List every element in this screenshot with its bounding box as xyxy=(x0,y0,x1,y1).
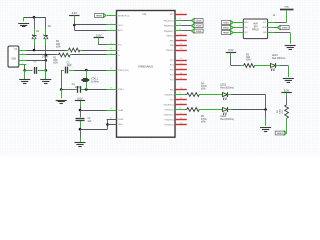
svg-text:23: 23 xyxy=(110,88,112,90)
svg-text:11: 11 xyxy=(110,43,112,45)
svg-text:8: 8 xyxy=(111,28,112,30)
svg-text:PD0: PD0 xyxy=(170,90,174,92)
svg-text:PB2(MOSI): PB2(MOSI) xyxy=(164,26,174,28)
svg-text:PD3(TXD1): PD3(TXD1) xyxy=(164,114,174,116)
svg-text:4: 4 xyxy=(181,103,182,105)
svg-text:PB0(SS): PB0(SS) xyxy=(166,50,174,52)
svg-text:±5%: ±5% xyxy=(56,46,61,48)
svg-text:26: 26 xyxy=(110,108,112,110)
svg-text:LED2: LED2 xyxy=(220,85,226,87)
svg-text:19: 19 xyxy=(180,43,182,45)
svg-text:2: 2 xyxy=(111,14,112,16)
svg-text:Red (633nm): Red (633nm) xyxy=(220,119,234,121)
svg-text:16 MHz: 16 MHz xyxy=(91,82,100,84)
svg-text:XTAL2(PC0): XTAL2(PC0) xyxy=(118,69,129,72)
svg-text:24: 24 xyxy=(180,88,182,90)
svg-text:VCC: VCC xyxy=(118,45,123,47)
svg-text:LED1: LED1 xyxy=(272,55,278,57)
svg-text:14: 14 xyxy=(110,48,112,50)
svg-text:12pF: 12pF xyxy=(75,87,81,89)
svg-text:24: 24 xyxy=(180,48,182,50)
svg-text:PB5: PB5 xyxy=(170,40,174,42)
svg-text:20: 20 xyxy=(110,68,112,70)
svg-text:Red (633nm): Red (633nm) xyxy=(272,58,286,60)
svg-text:9: 9 xyxy=(181,34,182,36)
svg-text:RST: RST xyxy=(244,32,247,34)
svg-text:mosi: mosi xyxy=(196,24,202,28)
svg-text:6: 6 xyxy=(271,31,272,33)
svg-text:PC2: PC2 xyxy=(170,60,174,62)
svg-text:PD7(INT7): PD7(INT7) xyxy=(164,124,173,126)
svg-text:2: 2 xyxy=(22,53,23,55)
svg-text:17: 17 xyxy=(110,53,112,55)
svg-text:19: 19 xyxy=(180,123,182,125)
svg-text:XTAL1: XTAL1 xyxy=(118,88,124,91)
svg-text:PB6: PB6 xyxy=(170,45,174,47)
svg-text:PB3(MISO): PB3(MISO) xyxy=(164,31,174,33)
svg-text:U1: U1 xyxy=(143,12,147,16)
svg-text:XTAL1: XTAL1 xyxy=(91,78,99,81)
svg-text:MOSI: MOSI xyxy=(262,27,267,29)
svg-text:4: 4 xyxy=(181,63,182,65)
svg-text:±5%: ±5% xyxy=(53,63,58,65)
svg-text:clock: clock xyxy=(196,19,203,23)
svg-text:PD1: PD1 xyxy=(170,99,174,101)
svg-text:GND: GND xyxy=(284,7,289,9)
svg-text:PD6(INT6): PD6(INT6) xyxy=(164,119,173,121)
svg-text:PC4: PC4 xyxy=(170,65,174,67)
svg-text:reset: reset xyxy=(277,131,283,135)
svg-text:9: 9 xyxy=(181,68,182,70)
svg-text:PB4(T1): PB4(T1) xyxy=(166,35,173,37)
svg-text:USB: USB xyxy=(11,58,16,60)
svg-text:PD4(INT5): PD4(INT5) xyxy=(164,94,173,96)
svg-text:1µF: 1µF xyxy=(88,121,93,123)
svg-text:3.3V: 3.3V xyxy=(72,12,77,15)
svg-text:5: 5 xyxy=(239,31,240,33)
svg-text:3: 3 xyxy=(239,26,240,28)
svg-text:PD2(RXD1): PD2(RXD1) xyxy=(164,104,174,106)
svg-text:PC5: PC5 xyxy=(170,70,174,72)
svg-text:4: 4 xyxy=(271,26,272,28)
svg-text:29: 29 xyxy=(180,98,182,100)
svg-text:19: 19 xyxy=(180,78,182,80)
svg-text:5.0V: 5.0V xyxy=(284,89,289,92)
svg-text:UGND: UGND xyxy=(118,119,124,121)
svg-text:29: 29 xyxy=(180,58,182,60)
svg-text:PC7: PC7 xyxy=(170,80,174,82)
svg-text:PB1(SCLK): PB1(SCLK) xyxy=(164,20,174,22)
svg-text:PROG: PROG xyxy=(252,29,259,32)
svg-text:miso: miso xyxy=(223,21,229,25)
svg-text:reset: reset xyxy=(223,31,229,35)
svg-text:3: 3 xyxy=(22,59,23,61)
svg-text:LED3: LED3 xyxy=(220,116,226,118)
svg-text:5.0V: 5.0V xyxy=(77,98,82,101)
svg-text:Red (633nm): Red (633nm) xyxy=(220,87,234,89)
svg-text:UCAP: UCAP xyxy=(118,109,124,112)
svg-text:4: 4 xyxy=(22,63,23,65)
svg-text:PC6: PC6 xyxy=(170,75,174,77)
svg-text:1: 1 xyxy=(239,21,240,23)
svg-text:RESET(PC1): RESET(PC1) xyxy=(118,15,130,17)
svg-text:14: 14 xyxy=(180,73,182,75)
svg-text:14: 14 xyxy=(180,118,182,120)
svg-text:ATMEGA8U2: ATMEGA8U2 xyxy=(138,65,154,68)
svg-text:9: 9 xyxy=(181,113,182,115)
svg-text:5.0V: 5.0V xyxy=(96,34,101,37)
svg-text:±5%: ±5% xyxy=(282,110,284,114)
svg-text:miso: miso xyxy=(196,29,202,33)
svg-text:14: 14 xyxy=(180,39,182,41)
svg-text:UVCC: UVCC xyxy=(118,25,124,27)
svg-text:1: 1 xyxy=(22,48,23,50)
svg-text:12pF: 12pF xyxy=(67,65,73,67)
svg-text:±5%: ±5% xyxy=(201,121,206,123)
svg-text:MISO: MISO xyxy=(244,22,249,24)
svg-text:GND: GND xyxy=(118,124,123,126)
svg-text:4: 4 xyxy=(181,12,182,14)
svg-text:±5%: ±5% xyxy=(201,89,206,91)
svg-text:±5%: ±5% xyxy=(246,60,251,62)
svg-text:mosi: mosi xyxy=(282,26,288,30)
svg-text:clock: clock xyxy=(223,26,230,30)
svg-text:5.0V: 5.0V xyxy=(228,49,233,52)
svg-text:100nF: 100nF xyxy=(42,56,49,58)
svg-text:5: 5 xyxy=(111,23,112,25)
svg-text:PB7: PB7 xyxy=(170,14,174,16)
svg-text:AVCC: AVCC xyxy=(118,29,124,32)
svg-text:2: 2 xyxy=(271,21,272,23)
svg-text:reset: reset xyxy=(96,14,102,18)
svg-text:PD5(XCK): PD5(XCK) xyxy=(165,109,174,111)
